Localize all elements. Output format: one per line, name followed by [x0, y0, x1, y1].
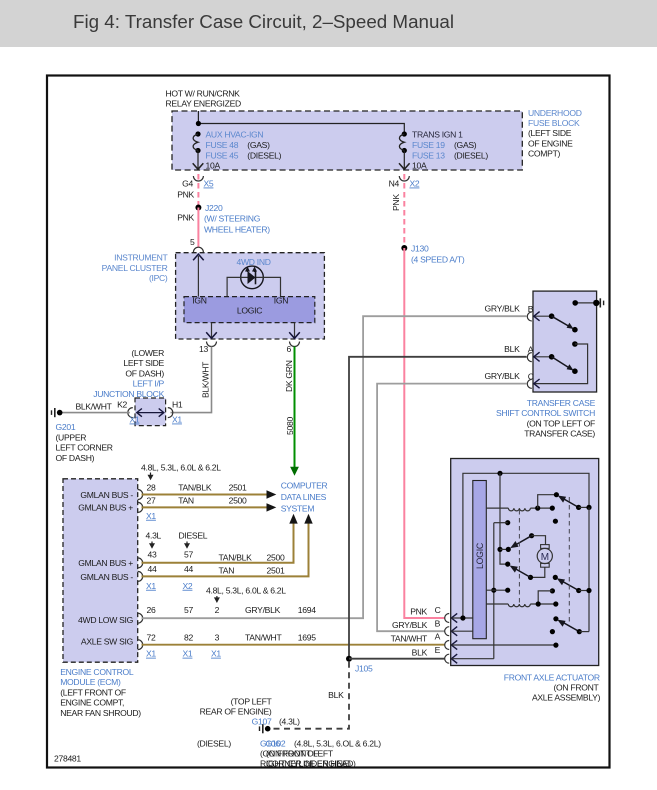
svg-text:(4 SPEED A/T): (4 SPEED A/T) [411, 255, 465, 265]
svg-text:AXLE ASSEMBLY): AXLE ASSEMBLY) [532, 693, 601, 703]
pin 28 wire TAN/BLK 2501 to computer data lines [142, 482, 277, 498]
wire BLK switch pin A label [504, 344, 534, 362]
wires lamp to logic [227, 277, 280, 296]
svg-text:72: 72 [147, 632, 156, 642]
svg-text:44: 44 [184, 564, 193, 574]
svg-text:FUSE 48: FUSE 48 [206, 140, 239, 150]
motor switch lower [505, 562, 545, 581]
svg-text:X1: X1 [172, 415, 182, 425]
svg-text:(ON TOP LEFT OF: (ON TOP LEFT OF [527, 418, 595, 428]
svg-text:A: A [435, 632, 441, 642]
svg-text:UNDERHOOD: UNDERHOOD [528, 108, 582, 118]
switch contact mid (to C) [534, 341, 588, 388]
svg-text:BLK: BLK [412, 647, 428, 657]
actuator pin E entry [435, 645, 494, 663]
svg-text:28: 28 [147, 482, 156, 492]
wire GRY/BLK switch pin B label [485, 304, 534, 322]
wire logic row 590 [486, 588, 510, 593]
svg-text:(4.8L, 5.3L, 6.OL & 6.2L): (4.8L, 5.3L, 6.OL & 6.2L) [294, 738, 381, 748]
svg-text:LEFT I/P: LEFT I/P [133, 379, 165, 389]
wire logic to contact (row 522.7) [494, 520, 511, 525]
ground G107 [200, 696, 300, 733]
svg-text:X5: X5 [204, 179, 214, 189]
svg-text:4.8L, 5.3L, 6.0L & 6.2L: 4.8L, 5.3L, 6.0L & 6.2L [206, 585, 286, 595]
svg-text:(LOWER: (LOWER [131, 348, 164, 358]
splice J105 [346, 656, 373, 674]
node: computer data lines system [281, 481, 328, 514]
svg-text:FUSE BLOCK: FUSE BLOCK [528, 118, 580, 128]
svg-text:BLK: BLK [504, 344, 520, 354]
svg-text:X1: X1 [146, 649, 156, 659]
svg-text:4WD LOW SIG: 4WD LOW SIG [78, 615, 134, 625]
svg-text:GRY/BLK: GRY/BLK [245, 605, 281, 615]
svg-text:4.3L: 4.3L [146, 531, 162, 541]
svg-text:IGN: IGN [192, 295, 206, 305]
indicator lamp 4WD IND [241, 266, 264, 289]
svg-text:(DIESEL): (DIESEL) [247, 150, 281, 160]
ground G201 [52, 408, 113, 463]
svg-text:4WD IND: 4WD IND [237, 257, 271, 267]
svg-text:COMPUTER: COMPUTER [281, 481, 328, 491]
wire BLK/WHT pin13 to junction block H1 [171, 347, 212, 413]
svg-text:ENGINE CONTROL: ENGINE CONTROL [60, 667, 134, 677]
svg-text:13: 13 [199, 344, 208, 354]
wire GRY/BLK switch C down to actuator pin B [377, 384, 526, 632]
svg-text:TAN: TAN [178, 496, 194, 506]
svg-text:OF DASH): OF DASH) [125, 368, 164, 378]
pins 43/57 wire TAN/BLK 2500 up to computer data lines [142, 514, 298, 563]
fuse F19/F13 (TRANS IGN 1) [399, 129, 488, 170]
wire: fuse block internal bus [196, 111, 405, 133]
svg-text:27: 27 [147, 496, 156, 506]
instrument panel cluster (IPC) [102, 253, 325, 339]
actuator pin C entry [435, 605, 473, 623]
svg-text:X1: X1 [211, 649, 221, 659]
wire contact to lower coil [538, 588, 555, 604]
wire BLK J105 to actuator pin E [349, 647, 445, 658]
svg-text:RELAY ENERGIZED: RELAY ENERGIZED [166, 99, 242, 109]
svg-text:J105: J105 [355, 664, 373, 674]
svg-text:(W/ STEERING: (W/ STEERING [204, 214, 261, 224]
ground G106 label (overlapped text) [260, 738, 356, 768]
svg-text:FUSE 13: FUSE 13 [412, 150, 445, 160]
engine variant labels 4.3L / DIESEL [146, 531, 208, 549]
svg-text:NEAR FAN SHROUD): NEAR FAN SHROUD) [60, 708, 141, 718]
svg-text:57: 57 [184, 550, 193, 560]
svg-text:(ON FRONT OF: (ON FRONT OF [260, 749, 318, 759]
svg-text:PANEL CLUSTER: PANEL CLUSTER [102, 263, 168, 273]
svg-text:(ON FRONT: (ON FRONT [553, 683, 599, 693]
wire PNK (dashed) G4 to J220 [177, 174, 198, 205]
front axle actuator [451, 459, 601, 703]
wire BLK/WHT G201 to junction block K2 [62, 402, 130, 413]
wire PNK J130 down to front axle actuator pin C [404, 248, 444, 618]
engine variant label 4.8L group1 [141, 463, 221, 481]
svg-text:B: B [435, 618, 441, 628]
svg-text:GMLAN BUS +: GMLAN BUS + [78, 503, 133, 513]
motor M1 [537, 545, 552, 568]
svg-text:HOT W/ RUN/CRNK: HOT W/ RUN/CRNK [166, 89, 241, 99]
svg-text:278481: 278481 [54, 754, 81, 764]
svg-text:2501: 2501 [229, 482, 247, 492]
svg-text:6: 6 [287, 344, 292, 354]
ECM connector arcs group1 [138, 490, 143, 513]
IPC pin 6 exit [287, 323, 300, 354]
wire PNK J220 to IPC pin 5 [177, 208, 203, 253]
switch internal ground wire [572, 300, 595, 306]
IPC pin 13 exit [199, 323, 217, 354]
svg-text:G107: G107 [252, 716, 272, 726]
svg-text:G4: G4 [182, 179, 193, 189]
svg-text:43: 43 [148, 550, 157, 560]
svg-text:X2: X2 [183, 581, 193, 591]
svg-text:E: E [435, 645, 441, 655]
svg-text:2500: 2500 [229, 496, 247, 506]
svg-text:(UPPER: (UPPER [56, 432, 87, 442]
svg-text:SHIFT CONTROL SWITCH: SHIFT CONTROL SWITCH [496, 408, 595, 418]
svg-text:4.8L, 5.3L, 6.0L & 6.2L: 4.8L, 5.3L, 6.0L & 6.2L [141, 463, 221, 473]
svg-text:IGN: IGN [274, 295, 288, 305]
svg-text:(LEFT SIDE: (LEFT SIDE [528, 128, 572, 138]
svg-text:GMLAN BUS +: GMLAN BUS + [78, 558, 133, 568]
actuator supply vertical wire [497, 473, 508, 564]
ECM connector arcs group2 [138, 558, 143, 582]
svg-text:MODULE (ECM): MODULE (ECM) [60, 677, 121, 687]
actuator pin B entry [435, 618, 473, 635]
svg-text:X2: X2 [410, 179, 420, 189]
engine variant label 4.8L group3 [206, 585, 286, 603]
wire PNK (dashed) N4 to J130 [391, 174, 404, 246]
svg-text:DK GRN: DK GRN [284, 360, 294, 392]
ground G102 label (overlapped text) [197, 738, 381, 768]
upper coil L1 [486, 495, 556, 511]
svg-text:(LEFT FRONT OF: (LEFT FRONT OF [60, 687, 126, 697]
actuator switch S1 (top right) [553, 492, 592, 524]
pins 44/44 wire TAN 2501 up to computer data lines [142, 514, 313, 591]
svg-text:LOGIC: LOGIC [237, 305, 262, 315]
linkage (dashed) 2 [568, 497, 570, 624]
svg-text:TRANS IGN 1: TRANS IGN 1 [412, 129, 463, 139]
fuse F48/F45 (AUX HVAC-IGN) [193, 129, 282, 170]
svg-text:COMPT): COMPT) [528, 148, 561, 158]
pin 27 wire TAN 2500 to computer data lines [142, 496, 277, 521]
svg-text:J220: J220 [205, 203, 223, 213]
IPC logic box [184, 295, 315, 322]
switch contact B arm [534, 312, 578, 333]
actuator E riser wire [491, 523, 496, 659]
svg-text:(4.3L): (4.3L) [279, 716, 300, 726]
svg-text:K2: K2 [117, 399, 127, 409]
diagram number [54, 754, 81, 764]
engine control module (ECM) [60, 479, 141, 718]
svg-text:(DIESEL): (DIESEL) [454, 150, 488, 160]
svg-text:TAN/WHT: TAN/WHT [391, 634, 428, 644]
svg-text:26: 26 [147, 605, 156, 615]
wire pin5 to logic (arrow up) [193, 254, 204, 296]
underhood fuse block [166, 89, 582, 171]
svg-text:(GAS): (GAS) [247, 140, 270, 150]
svg-text:GRY/BLK: GRY/BLK [485, 304, 521, 314]
svg-text:GRY/BLK: GRY/BLK [485, 371, 521, 381]
svg-text:TAN/WHT: TAN/WHT [245, 633, 282, 643]
svg-text:ENGINE COMPT,: ENGINE COMPT, [60, 698, 124, 708]
actuator top rail wire [463, 471, 589, 618]
svg-text:SYSTEM: SYSTEM [281, 504, 315, 514]
svg-text:PNK: PNK [391, 194, 401, 211]
diagram border frame [47, 76, 610, 768]
svg-text:(IPC): (IPC) [149, 273, 168, 283]
svg-text:TAN: TAN [219, 566, 235, 576]
splice J220 [195, 203, 270, 235]
svg-text:BLK/WHT: BLK/WHT [76, 402, 113, 412]
svg-text:FRONT AXLE ACTUATOR: FRONT AXLE ACTUATOR [504, 673, 600, 683]
svg-text:J130: J130 [411, 244, 429, 254]
svg-text:LEFT CORNER: LEFT CORNER [56, 443, 113, 453]
svg-text:2: 2 [215, 605, 220, 615]
svg-text:LOGIC: LOGIC [475, 542, 485, 569]
svg-text:REAR OF ENGINE): REAR OF ENGINE) [200, 707, 272, 717]
svg-text:82: 82 [184, 632, 193, 642]
svg-text:N4: N4 [389, 179, 400, 189]
svg-text:1694: 1694 [298, 605, 316, 615]
svg-text:GMLAN BUS -: GMLAN BUS - [80, 490, 133, 500]
svg-text:INSTRUMENT: INSTRUMENT [114, 253, 168, 263]
svg-text:AUX HVAC-IGN: AUX HVAC-IGN [206, 129, 264, 139]
ground (switch case) [593, 298, 604, 307]
svg-text:AXLE SW SIG: AXLE SW SIG [81, 636, 134, 646]
ECM connector arcs group3 [138, 613, 143, 650]
svg-text:TRANSFER CASE: TRANSFER CASE [527, 398, 596, 408]
svg-text:G106: G106 [260, 738, 280, 748]
svg-text:BLK: BLK [328, 690, 344, 700]
wire BLK switch A down to J105 [349, 357, 527, 657]
svg-text:WHEEL HEATER): WHEEL HEATER) [204, 225, 270, 235]
wire DK GRN pin6 to computer data lines (5080) [284, 347, 299, 476]
svg-text:FUSE 19: FUSE 19 [412, 140, 445, 150]
svg-text:BLK/WHT: BLK/WHT [201, 361, 211, 398]
svg-text:PNK: PNK [410, 607, 427, 617]
actuator right rail [588, 507, 590, 631]
switch contact A arm [534, 352, 578, 374]
svg-text:2500: 2500 [267, 552, 285, 562]
svg-text:G201: G201 [56, 422, 76, 432]
svg-text:X1: X1 [183, 649, 193, 659]
svg-text:GRY/BLK: GRY/BLK [392, 620, 428, 630]
svg-text:FUSE 45: FUSE 45 [206, 150, 239, 160]
motor switch upper [506, 533, 546, 552]
svg-text:PNK: PNK [177, 190, 194, 200]
wire TAN/WHT 1695 (AXLE SW SIG) to actuator pin A [142, 632, 446, 658]
actuator logic bar [473, 481, 487, 639]
svg-text:C: C [435, 605, 441, 615]
svg-text:(TOP LEFT: (TOP LEFT [231, 696, 273, 706]
svg-text:OF ENGINE: OF ENGINE [528, 138, 573, 148]
svg-text:57: 57 [184, 605, 193, 615]
connector G4 X5 [182, 176, 214, 189]
wire BLK (dashed) J105 down to grounds [271, 662, 349, 729]
svg-text:TRANSFER CASE): TRANSFER CASE) [524, 429, 595, 439]
svg-text:1695: 1695 [298, 633, 316, 643]
svg-text:X1: X1 [146, 511, 156, 521]
svg-text:10A: 10A [412, 160, 427, 170]
svg-text:DATA LINES: DATA LINES [281, 492, 327, 502]
svg-text:44: 44 [148, 564, 157, 574]
linkage (dashed) 1 [518, 510, 520, 603]
svg-text:RIGHT CYLINDER HEAD): RIGHT CYLINDER HEAD) [260, 758, 356, 768]
svg-text:(DIESEL): (DIESEL) [197, 738, 231, 748]
svg-text:5: 5 [190, 237, 195, 247]
svg-text:X1: X1 [130, 415, 140, 425]
svg-text:TAN/BLK: TAN/BLK [219, 552, 253, 562]
svg-text:GMLAN BUS -: GMLAN BUS - [80, 572, 133, 582]
svg-text:LEFT SIDE: LEFT SIDE [123, 358, 164, 368]
svg-text:OF DASH): OF DASH) [56, 453, 95, 463]
actuator pin A entry [391, 632, 559, 650]
svg-text:2501: 2501 [267, 566, 285, 576]
svg-text:JUNCTION BLOCK: JUNCTION BLOCK [93, 389, 164, 399]
wire GRY/BLK 1694 (4WD LOW SIG) to switch B riser [142, 316, 527, 618]
svg-text:TAN/BLK: TAN/BLK [178, 482, 212, 492]
svg-text:DIESEL: DIESEL [179, 531, 208, 541]
splice J130 [401, 244, 465, 265]
actuator switch S3 (bottom right) [550, 616, 589, 634]
wire GRY/BLK switch pin C label [485, 371, 534, 389]
transfer case shift control switch [496, 291, 597, 439]
svg-text:10A: 10A [206, 160, 221, 170]
left I/P junction block [93, 348, 183, 426]
connector N4 X2 [389, 176, 420, 189]
svg-text:5080: 5080 [285, 417, 295, 435]
svg-text:X1: X1 [146, 581, 156, 591]
svg-text:M: M [541, 552, 549, 563]
svg-text:(GAS): (GAS) [454, 140, 477, 150]
svg-text:H1: H1 [172, 399, 183, 409]
actuator switch S2 (mid right) [553, 575, 592, 593]
svg-text:3: 3 [215, 632, 220, 642]
svg-text:PNK: PNK [177, 213, 194, 223]
lower coil L2 [486, 601, 558, 606]
